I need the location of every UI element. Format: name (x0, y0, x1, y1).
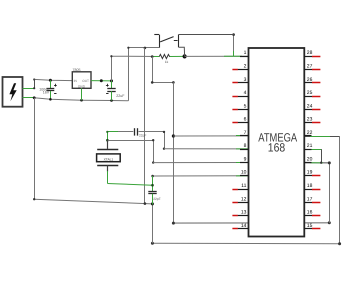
svg-text:23: 23 (307, 117, 313, 123)
svg-text:11: 11 (241, 183, 246, 189)
pin number 5 (244, 103, 247, 109)
pin number 4 (244, 90, 247, 96)
pin 21 (304, 149, 311, 151)
wire supply positive terminal (23, 79, 35, 88)
pin number 22 (307, 130, 313, 136)
wire AVCC riser x329 (329, 163, 331, 223)
wire 7805 GND lead (81, 88, 83, 100)
pin label OUT (82, 79, 89, 83)
wire 5V drop x173 (173, 82, 175, 223)
wire ground run to corner (34, 98, 128, 101)
capacitor C3 22pF (107, 128, 164, 135)
svg-text:GND: GND (78, 85, 85, 89)
pin 1 (240, 56, 249, 58)
wire crystal bottom to cap4 (108, 184, 153, 186)
wire pin 22 GND (304, 136, 339, 138)
pin 15 (304, 228, 320, 230)
svg-text:21: 21 (307, 143, 313, 149)
pin 4 (232, 96, 248, 98)
svg-text:6: 6 (244, 117, 247, 123)
svg-text:7805: 7805 (72, 68, 80, 72)
pin 14 (232, 228, 248, 230)
pin 7 (240, 135, 249, 137)
pin 10 (240, 175, 249, 177)
junction dot crystal top (106, 139, 109, 142)
svg-text:26: 26 (307, 77, 313, 83)
wire ground drop left (34, 98, 36, 199)
pin number 2 (244, 63, 247, 69)
svg-text:22pF: 22pF (139, 134, 147, 138)
switch S1 right contact (178, 35, 180, 48)
label C2 22uF (116, 94, 124, 98)
wire GND drop x339 (339, 136, 341, 244)
power supply PS1 (3, 77, 23, 107)
label C3 22pF (139, 134, 147, 138)
label ATMEGA 168 (258, 131, 297, 155)
wire reset rail left (111, 55, 159, 57)
pin 16 (304, 215, 320, 217)
pin number 3 (244, 77, 247, 83)
svg-text:9: 9 (244, 156, 247, 162)
wire GND bottom run (151, 242, 341, 246)
junction dots on ground run (33, 96, 113, 101)
label C4 22pF (153, 197, 161, 201)
wire pin 21 AREF (304, 149, 322, 164)
junction dot VCC pin7 (172, 134, 175, 137)
corner dots (33, 47, 130, 201)
wire pin 7 VCC (173, 135, 248, 138)
svg-text:22: 22 (307, 130, 313, 136)
svg-text:18: 18 (307, 183, 313, 189)
wire 12V feed to 7805 IN (34, 79, 72, 80)
pin number 8 (244, 143, 247, 149)
pin 20 (304, 162, 311, 164)
pin number 11 (241, 183, 246, 189)
wire switch right jog to reset node (179, 47, 185, 56)
wire 5V bottom run to AVCC (172, 221, 331, 224)
pin 3 (232, 82, 248, 84)
pin number 12 (241, 196, 247, 202)
pin number 10 (241, 170, 247, 176)
svg-text:22uF: 22uF (116, 94, 124, 98)
svg-text:27: 27 (307, 63, 313, 69)
wire switch left to ground corner (128, 47, 159, 49)
pin number 1 (244, 50, 247, 56)
wire switch top to pin1 drop (233, 35, 235, 57)
junction dot x145 on switch wire (144, 47, 147, 50)
wire resistor to reset node (170, 55, 185, 57)
pin label GND (78, 85, 85, 89)
svg-text:2: 2 (244, 63, 247, 69)
svg-text:4: 4 (244, 90, 247, 96)
wire pin 9 XTAL1 (153, 162, 248, 164)
junction dot OUT wire (100, 79, 103, 82)
pin label IN (74, 79, 77, 83)
pin number 25 (307, 90, 313, 96)
label XTAL1 (104, 158, 114, 162)
pin 17 (304, 202, 320, 204)
svg-text:1k: 1k (165, 60, 169, 64)
pin 18 (304, 189, 320, 191)
wire pin 20 AVCC (304, 161, 331, 164)
switch S1 contact tick (174, 40, 178, 42)
wire 7805 OUT 5V (91, 80, 112, 82)
crystal Y1 XTAL1 (97, 140, 121, 183)
pin number 21 (307, 143, 313, 149)
pin 2 (232, 69, 248, 71)
svg-text:14: 14 (241, 223, 247, 229)
svg-text:IN: IN (74, 79, 77, 83)
svg-text:1: 1 (244, 50, 247, 56)
junction node RESET (183, 54, 187, 58)
pin number 6 (244, 117, 247, 123)
pin number 18 (307, 183, 313, 189)
svg-text:20: 20 (307, 156, 313, 162)
wire reset node to pin 1 (185, 55, 249, 57)
svg-text:19: 19 (307, 170, 313, 176)
svg-text:5: 5 (244, 103, 247, 109)
pin 23 (304, 122, 320, 124)
corner dot (232, 33, 235, 36)
IC U2 ATMEGA 168 (249, 48, 305, 237)
pin 5 (232, 109, 248, 111)
junction dot 5V at cap2 (110, 79, 113, 82)
pin number 9 (244, 156, 247, 162)
capacitor C4 22pF (148, 176, 156, 205)
pin number 16 (307, 210, 313, 216)
wire 5V riser to reset rail (111, 56, 113, 81)
wire 5V jog (151, 81, 175, 84)
pin 26 (304, 82, 320, 84)
svg-text:24: 24 (307, 103, 313, 109)
pin number 26 (307, 77, 313, 83)
wire cap3 left drop (107, 132, 109, 140)
wire switch top run (179, 34, 234, 36)
svg-text:28: 28 (307, 50, 313, 56)
resistor R1 (159, 54, 170, 58)
pin number 28 (307, 50, 313, 56)
junction dot ground bus meets cap4 (151, 202, 154, 205)
pin 27 (304, 69, 320, 71)
svg-text:168: 168 (268, 140, 286, 154)
pin 24 (304, 109, 320, 111)
pin 12 (232, 202, 248, 204)
wire pin 8 GND (164, 148, 249, 150)
svg-text:OUT: OUT (82, 79, 89, 83)
pin number 7 (244, 130, 247, 136)
svg-text:16V: 16V (43, 91, 50, 95)
pin 8 (240, 149, 249, 151)
wire ground bus bottom (34, 199, 152, 204)
pin 19 (304, 175, 320, 177)
svg-text:13: 13 (241, 210, 247, 216)
capacitor C1 100uF (46, 80, 56, 99)
pin number 14 (241, 223, 247, 229)
pin 6 (232, 122, 248, 124)
wire cap3 right to pin8 corner (163, 131, 165, 150)
pin 22 (304, 135, 311, 137)
pin 25 (304, 96, 320, 98)
junction dot cap1 top (49, 79, 52, 82)
label R1 1k (165, 60, 169, 64)
svg-text:12: 12 (241, 196, 247, 202)
svg-text:16: 16 (307, 210, 313, 216)
label 7805 (72, 68, 80, 72)
svg-text:XTAL1: XTAL1 (104, 158, 114, 162)
svg-text:3: 3 (244, 77, 247, 83)
svg-text:8: 8 (244, 143, 247, 149)
pin 28 (304, 56, 320, 58)
pin number 19 (307, 170, 313, 176)
pin number 27 (307, 63, 313, 69)
svg-text:10: 10 (241, 170, 247, 176)
pin number 24 (307, 103, 313, 109)
wire 5V drop x152 (152, 57, 154, 83)
svg-text:22pF: 22pF (153, 197, 161, 201)
pin 11 (232, 189, 248, 191)
wire supply negative terminal (23, 97, 35, 99)
pin number 15 (307, 223, 313, 229)
pin number 13 (241, 210, 247, 216)
svg-text:25: 25 (307, 90, 313, 96)
pin number 20 (307, 156, 313, 162)
junction dot bus x145 (144, 202, 147, 205)
pin 9 (240, 162, 249, 164)
wire ground drop x145 (144, 48, 146, 204)
pin number 23 (307, 117, 313, 123)
svg-text:7: 7 (244, 130, 247, 136)
wire crystal top to pin9 corner (107, 139, 154, 164)
voltage regulator U1 7805 (72, 72, 91, 89)
capacitor C2 22uF (106, 81, 116, 101)
svg-text:17: 17 (307, 196, 313, 202)
wire ground drop x128 (128, 48, 130, 101)
wire cap4 bottom to GND bottom run (152, 204, 154, 243)
pin 13 (232, 215, 248, 217)
label C1 100uF 16V (39, 87, 49, 94)
svg-text:15: 15 (307, 223, 313, 229)
junction dot 5V branch (151, 55, 154, 58)
wire pin 10 XTAL2 (151, 175, 248, 178)
switch S1 lever (160, 37, 173, 42)
pin number 17 (307, 196, 313, 202)
switch S1 left contact (154, 35, 159, 48)
